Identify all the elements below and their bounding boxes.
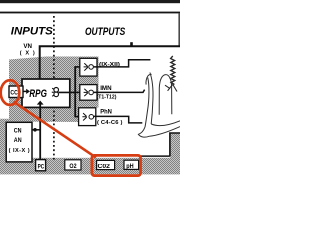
wire: middle box output IMN line xyxy=(94,90,145,93)
trunk: afferent vertical from PC band up into RPG xyxy=(39,104,41,160)
RPG box xyxy=(22,79,70,107)
right border line xyxy=(178,13,180,47)
top black bar xyxy=(0,0,180,3)
svg-text:( C4-C6 ): ( C4-C6 ) xyxy=(97,120,122,126)
CC box xyxy=(9,86,23,98)
arch (head) xyxy=(159,75,172,115)
svg-text:pH: pH xyxy=(126,163,134,170)
arrowhead VN into RPG xyxy=(36,80,43,85)
gray halftone brainstem blob xyxy=(9,57,99,123)
wire: CN AN output with junction dot xyxy=(32,129,41,131)
curve sail left xyxy=(145,78,149,128)
svg-text:OUTPUTS: OUTPUTS xyxy=(85,26,126,38)
svg-text:( IX-X ): ( IX-X ) xyxy=(9,148,30,154)
motoneuron box middle xyxy=(80,85,97,101)
top rule line xyxy=(0,12,180,14)
pH box xyxy=(124,160,139,169)
curve sail right xyxy=(150,73,153,125)
svg-text:AN: AN xyxy=(14,137,22,144)
svg-text:IMN: IMN xyxy=(100,85,112,92)
sketch vessel bottom line xyxy=(138,155,170,157)
small hook top xyxy=(146,74,152,84)
svg-text:CN: CN xyxy=(14,128,22,135)
red annotation ellipse around CC xyxy=(1,80,20,105)
svg-text:(T1-T12): (T1-T12) xyxy=(97,95,117,101)
motoneuron box top xyxy=(80,58,97,76)
svg-text:VN: VN xyxy=(23,43,32,50)
red annotation rectangle around CO2 pH xyxy=(92,155,141,175)
arrowhead up into RPG xyxy=(37,101,44,105)
wire: bottom box output PhN line + step xyxy=(94,116,142,123)
right block borders xyxy=(170,133,180,156)
svg-text:RPG: RPG xyxy=(29,88,47,100)
svg-text:PhN: PhN xyxy=(100,109,112,116)
RPG neuron glyph (two circles with dendrite ticks) xyxy=(52,88,59,97)
svg-text:PC: PC xyxy=(38,163,45,170)
bottom hook curl xyxy=(138,127,149,137)
wire: trunk to bottom motoneuron box xyxy=(74,116,83,118)
sketch: zigzag spring band xyxy=(171,56,175,85)
dotted separator line xyxy=(53,16,55,160)
svg-text:C02: C02 xyxy=(98,164,111,170)
motoneuron glyph middle (dendrites + soma circle) xyxy=(84,89,94,96)
tick on outputs line xyxy=(130,42,133,46)
band lower curve xyxy=(149,127,180,137)
O2 box xyxy=(65,160,81,170)
svg-text:CC: CC xyxy=(10,90,18,97)
motoneuron glyph bottom (dendrites + soma circle) xyxy=(82,113,93,120)
trunk vertical xyxy=(74,67,76,117)
gray left strip above CN box down to band xyxy=(0,119,9,159)
svg-text:(IX-XII): (IX-XII) xyxy=(99,62,120,68)
zigzag fork legs xyxy=(168,85,177,92)
wire: trunk to middle motoneuron box xyxy=(75,91,83,93)
svg-text:O2: O2 xyxy=(69,163,77,170)
band upper curve xyxy=(151,121,180,126)
CO2 box xyxy=(97,160,115,169)
arrow CC into RPG xyxy=(23,90,27,92)
svg-text:INPUTS: INPUTS xyxy=(11,26,53,38)
gray right block xyxy=(170,133,180,158)
PC box xyxy=(36,160,46,171)
wire: RPG output to trunk xyxy=(59,91,76,93)
CN AN box xyxy=(6,122,32,162)
svg-text:( X ): ( X ) xyxy=(20,50,35,56)
gray bottom blood band xyxy=(0,158,180,175)
wire: outputs underline + VN elbow into RPG xyxy=(40,46,180,80)
motoneuron box bottom xyxy=(79,108,96,126)
sketch: airway curves xyxy=(138,73,180,138)
wire: top box output + step to sketch xyxy=(94,60,151,67)
dome edge near zigzag xyxy=(165,85,170,88)
motoneuron glyph top (dendrites + soma circle) xyxy=(84,63,94,70)
red annotation line xyxy=(14,102,96,158)
wire: trunk to top motoneuron box xyxy=(74,66,83,68)
